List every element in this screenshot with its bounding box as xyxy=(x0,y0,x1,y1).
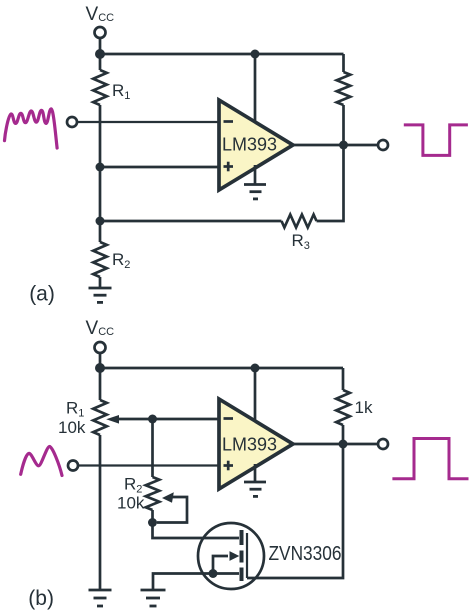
svg-text:10k: 10k xyxy=(58,418,86,437)
node body tie junction (b) xyxy=(209,569,218,578)
wire pull-up bottom (a) xyxy=(342,105,345,145)
wire op-amp ground stub (b) xyxy=(254,464,257,482)
svg-text:(a): (a) xyxy=(29,283,55,306)
wire inverting input (b) xyxy=(153,418,219,421)
op-amp U2 LM393 (b) xyxy=(219,399,293,489)
wire 1k bottom (b) xyxy=(342,425,345,444)
wire noninverting input (b) xyxy=(79,464,219,466)
potentiometer R2 10k (b) xyxy=(146,477,160,510)
wire R2 bottom stub (b) xyxy=(151,510,154,523)
node wiper junction R1 (b) xyxy=(148,415,157,424)
resistor R2 xyxy=(93,242,107,277)
svg-text:R3: R3 xyxy=(292,231,310,252)
svg-text:1k: 1k xyxy=(355,398,373,417)
wiper arrow R1 (b) xyxy=(106,415,152,424)
potentiometer R1 10k (b) xyxy=(93,400,107,435)
wire top rail (b) xyxy=(100,367,343,370)
node op-amp supply tap (b) xyxy=(251,364,260,373)
svg-text:R1: R1 xyxy=(112,81,130,102)
wire output (b) xyxy=(293,443,378,446)
resistor 1k xyxy=(336,390,350,425)
wire R2 top stub (a) xyxy=(99,221,102,242)
svg-text:10k: 10k xyxy=(117,493,145,512)
svg-text:LM393: LM393 xyxy=(222,434,277,454)
wire R1 top stub (b) xyxy=(99,368,102,400)
node R2 bottom junction (b) xyxy=(148,518,157,527)
output waveform (a) xyxy=(404,125,468,155)
terminal output (b) xyxy=(378,439,388,449)
svg-text:LM393: LM393 xyxy=(222,134,277,154)
wire op-amp V+ supply (b) xyxy=(254,368,257,424)
wire op-amp ground stub (a) xyxy=(254,165,257,185)
node VCC junction (a) xyxy=(95,49,105,59)
pin minus sign (b) xyxy=(224,417,234,420)
op-amp U1 LM393 (a) xyxy=(219,100,293,190)
wire noninverting input (a) xyxy=(100,166,218,169)
terminal VCC (a) xyxy=(95,27,106,38)
wire top rail (a) xyxy=(100,53,344,56)
svg-text:R1: R1 xyxy=(66,398,84,419)
node output junction (a) xyxy=(339,141,348,150)
wire output to gate run (b) xyxy=(247,444,343,578)
wire divider middle (a) xyxy=(99,105,102,221)
node output junction (b) xyxy=(339,440,348,449)
wire R1 bottom to ground (b) xyxy=(99,435,102,590)
wire output to feedback corner (a) xyxy=(317,145,344,221)
ground source (b) xyxy=(141,590,166,606)
terminal VCC (b) xyxy=(95,342,106,353)
wire VCC stub (a) xyxy=(99,38,102,54)
resistor R1 xyxy=(93,70,107,105)
channel dash drain Q1 xyxy=(240,530,244,545)
input waveform (a) xyxy=(5,109,58,148)
resistor R3 xyxy=(282,215,317,228)
ground left (b) xyxy=(89,590,112,606)
wire feedback to divider (a) xyxy=(100,220,282,223)
svg-text:R2: R2 xyxy=(112,250,130,271)
svg-text:(b): (b) xyxy=(28,587,54,610)
terminal input (b) xyxy=(68,461,78,471)
svg-text:VCC: VCC xyxy=(86,4,115,25)
node noninverting tap (a) xyxy=(96,163,105,172)
ground op-amp (b) xyxy=(244,482,266,496)
body arrow Q1 xyxy=(213,551,239,573)
wire R1 top stub (a) xyxy=(99,54,102,70)
wire op-amp V+ supply (a) xyxy=(254,54,257,125)
pin plus sign (b) xyxy=(224,461,234,471)
resistor pull-up (a) xyxy=(337,72,351,105)
wire 1k top (b) xyxy=(342,368,345,390)
output waveform (b) xyxy=(392,439,468,479)
terminal input (a) xyxy=(67,117,77,127)
channel dash source Q1 xyxy=(240,568,244,582)
pin plus sign (a) xyxy=(224,162,234,172)
node VCC junction (b) xyxy=(95,363,105,373)
wire wiper to R2 (b) xyxy=(151,419,154,477)
transistor Q1 ZVN3306 body circle xyxy=(198,523,264,589)
node op-amp supply tap (a) xyxy=(251,50,260,59)
gate electrode Q1 xyxy=(246,533,248,578)
pin minus sign (a) xyxy=(224,120,234,123)
svg-text:R2: R2 xyxy=(124,474,142,495)
wire inverting input (a) xyxy=(78,121,219,123)
ground divider (a) xyxy=(89,288,112,302)
channel dash body Q1 xyxy=(240,551,244,563)
wire R2 to ground (a) xyxy=(99,277,102,288)
ground op-amp (a) xyxy=(244,185,266,199)
wiper arrow R2 (b) xyxy=(157,492,187,522)
input waveform (b) xyxy=(21,447,62,476)
node feedback junction (a) xyxy=(96,217,105,226)
wire pull-up top (a) xyxy=(342,54,345,72)
wire drain run (b) xyxy=(153,523,240,539)
svg-text:VCC: VCC xyxy=(86,318,115,339)
wire VCC stub (b) xyxy=(99,353,102,368)
terminal output (a) xyxy=(378,140,388,150)
wire source run (b) xyxy=(153,574,239,591)
wire output (a) xyxy=(293,144,378,147)
svg-text:ZVN3306: ZVN3306 xyxy=(269,543,342,565)
